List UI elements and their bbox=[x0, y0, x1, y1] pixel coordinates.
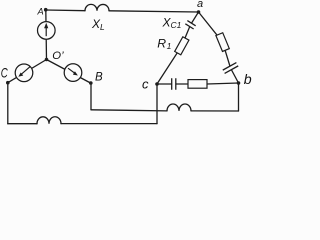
node a bbox=[197, 10, 201, 14]
svg-text:C1: C1 bbox=[171, 20, 182, 30]
node A bbox=[44, 8, 48, 12]
wire coil to b corner bbox=[191, 110, 239, 112]
wire C down bbox=[7, 83, 9, 124]
wire A to inductor XL bbox=[46, 9, 85, 12]
capacitor XC1 bbox=[185, 20, 196, 29]
svg-text:b: b bbox=[244, 72, 252, 88]
wire c to capacitor bbox=[157, 83, 172, 85]
source EB (phase B) bbox=[64, 64, 82, 82]
bottom rail to node c bbox=[61, 123, 157, 125]
wire capacitor to resistor bbox=[176, 83, 188, 85]
wire O' to C bbox=[8, 60, 47, 83]
source EA (phase A) bbox=[38, 22, 56, 40]
svg-text:L: L bbox=[100, 22, 105, 32]
svg-text:C: C bbox=[1, 65, 9, 81]
source EC (phase C) bbox=[15, 64, 33, 82]
svg-text:A: A bbox=[37, 7, 44, 17]
wire up to node b bbox=[238, 83, 240, 111]
wire B horizontal bbox=[91, 110, 167, 111]
svg-text:1: 1 bbox=[167, 41, 172, 51]
bottom rail left bbox=[8, 123, 37, 125]
resistor branch c-b bbox=[188, 80, 207, 89]
svg-text:B: B bbox=[95, 72, 103, 84]
resistor branch a-b bbox=[216, 33, 229, 52]
svg-text:c: c bbox=[142, 77, 149, 92]
wire A down to O' bbox=[45, 10, 48, 60]
svg-text:O’: O’ bbox=[52, 50, 64, 62]
wire O' to B bbox=[47, 60, 91, 84]
wire c down to bottom rail bbox=[156, 84, 158, 124]
node c bbox=[155, 82, 159, 86]
svg-text:R: R bbox=[157, 36, 166, 50]
inductor line C bbox=[37, 117, 61, 124]
branch a-b wire bbox=[199, 12, 239, 83]
branch a-c wire bbox=[157, 12, 199, 84]
inductor line B bbox=[167, 104, 191, 111]
node B bbox=[89, 81, 93, 85]
capacitor branch a-b bbox=[223, 62, 239, 73]
inductor XL bbox=[85, 4, 109, 10]
svg-text:a: a bbox=[197, 0, 203, 10]
wire resistor to b bbox=[207, 83, 239, 84]
node b bbox=[237, 81, 241, 85]
node C bbox=[6, 81, 10, 85]
capacitor branch c-b bbox=[172, 78, 176, 90]
wire XL to node a bbox=[109, 11, 199, 12]
wire B down bbox=[90, 83, 92, 110]
resistor R1 bbox=[175, 37, 189, 55]
node O' bbox=[45, 58, 49, 62]
